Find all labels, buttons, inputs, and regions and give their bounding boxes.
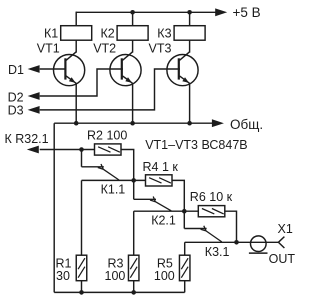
svg-text:VT1: VT1 <box>37 42 60 56</box>
wire R3 drop <box>133 211 135 255</box>
svg-text:VT3: VT3 <box>149 42 172 56</box>
relay coil K3 <box>174 26 205 41</box>
input D3 arrow <box>28 106 40 114</box>
relay coil K2 <box>117 26 148 41</box>
svg-text:К3: К3 <box>157 26 171 40</box>
input K R32.1 arrow <box>27 146 39 154</box>
junction R1 bottom <box>79 290 84 295</box>
net +5 V arrow <box>215 8 227 16</box>
svg-text:Общ.: Общ. <box>230 117 263 132</box>
svg-text:D3: D3 <box>8 104 24 118</box>
net common arrow <box>212 119 224 127</box>
resistor R3 <box>128 255 139 281</box>
wire R4 right corner <box>172 180 184 211</box>
resistor R2 <box>95 144 122 155</box>
wire node C horizontal to jack <box>185 241 279 243</box>
svg-text:X1: X1 <box>278 222 293 236</box>
resistor R6 <box>198 206 225 217</box>
connector X1 socket contact dash <box>249 252 268 254</box>
wire common rail <box>54 122 212 124</box>
switch K1.1 <box>82 150 120 181</box>
resistor R1 <box>76 255 87 281</box>
svg-text:VT2: VT2 <box>93 42 116 56</box>
junction above K2 <box>130 10 135 15</box>
wire collector VT1 <box>75 40 77 52</box>
svg-text:30: 30 <box>56 269 70 283</box>
wire R5 drop <box>184 242 186 255</box>
junction R3 bottom <box>131 290 136 295</box>
switch K3.1 <box>184 211 222 242</box>
wire R5 bottom <box>184 281 186 293</box>
junction emitter VT1 <box>74 121 79 126</box>
wire K R32.1 to R2 <box>40 149 95 151</box>
wire emitter VT3 to common <box>189 83 191 123</box>
svg-text:К3.1: К3.1 <box>205 245 230 259</box>
svg-text:R2 100: R2 100 <box>87 129 127 143</box>
svg-text:R6 10 к: R6 10 к <box>190 190 233 204</box>
wire emitter VT1 to common <box>75 83 77 123</box>
wire collector VT3 <box>189 40 191 52</box>
switch K2.1 <box>134 180 172 210</box>
wire VT2 base jog <box>40 69 123 96</box>
svg-text:100: 100 <box>154 269 175 283</box>
junction emitter VT3 <box>187 121 192 126</box>
input D2 arrow <box>28 92 40 100</box>
junction emitter VT2 <box>130 121 135 126</box>
resistor R4 <box>146 175 173 186</box>
transistor VT2 <box>110 52 141 86</box>
wire K1 top drop <box>75 12 77 26</box>
wire emitter VT2 to common <box>132 83 134 123</box>
svg-text:К R32.1: К R32.1 <box>5 132 49 146</box>
svg-text:OUT: OUT <box>269 252 296 266</box>
svg-text:D1: D1 <box>8 63 24 77</box>
relay coil K1 <box>61 26 92 41</box>
transistor VT1 <box>54 52 85 86</box>
wire node A horizontal <box>82 179 146 181</box>
input D1 arrow <box>28 65 40 73</box>
svg-text:D2: D2 <box>8 91 24 105</box>
wire node B horizontal <box>134 210 199 212</box>
svg-text:К1.1: К1.1 <box>101 183 126 197</box>
junction node A <box>131 178 136 183</box>
wire collector VT2 <box>132 40 134 52</box>
resistor R5 <box>179 255 190 281</box>
wire left rail down <box>53 123 55 292</box>
svg-text:К2: К2 <box>101 26 115 40</box>
junction node B <box>182 209 187 214</box>
junction node C <box>234 240 239 245</box>
svg-text:100: 100 <box>105 269 126 283</box>
connector X1 plug chevron <box>278 237 284 248</box>
wire R2 right corner <box>121 150 134 181</box>
wire bottom rail <box>54 291 185 293</box>
junction R2 input node <box>79 147 84 152</box>
wire R1 bottom <box>81 281 83 293</box>
svg-text:+5 В: +5 В <box>233 5 261 20</box>
transistor VT3 <box>167 52 198 86</box>
wire R6 right corner <box>225 211 237 242</box>
svg-text:VT1–VT3 ВС847В: VT1–VT3 ВС847В <box>145 138 247 152</box>
wire R3 bottom <box>133 281 135 293</box>
svg-text:R4 1 к: R4 1 к <box>143 160 179 174</box>
wire D1 to VT1 base <box>40 68 67 70</box>
svg-text:К1: К1 <box>44 26 58 40</box>
wire VT3 base jog <box>40 69 180 110</box>
wire +5V rail <box>76 11 215 13</box>
connector X1 socket circle <box>250 236 266 252</box>
junction above K3 <box>187 10 192 15</box>
wire K2 top drop <box>132 12 134 25</box>
wire K3 top drop <box>189 12 191 25</box>
svg-text:К2.1: К2.1 <box>151 213 176 227</box>
wire R1 drop <box>81 180 83 255</box>
